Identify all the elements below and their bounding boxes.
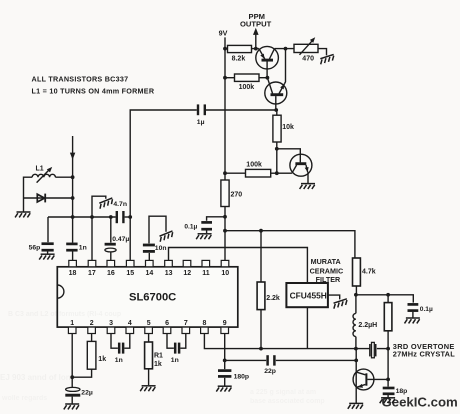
label 10k: [282, 124, 294, 131]
label 1k (pin 2): [98, 356, 106, 363]
svg-text:470: 470: [302, 56, 314, 63]
svg-text:7: 7: [184, 320, 188, 327]
svg-text:9V: 9V: [219, 29, 228, 38]
node: coil/crystal junction: [354, 347, 358, 351]
svg-text:B C3 and L2 of formuts (RI-4 c: B C3 and L2 of formuts (RI-4 coup: [8, 311, 121, 318]
capacitor 1u: [198, 104, 205, 115]
node: pin17/rail junction: [90, 215, 94, 219]
svg-text:6: 6: [165, 320, 169, 327]
svg-text:R1: R1: [154, 353, 163, 360]
node: 100k/Q1-base junction: [266, 76, 270, 80]
label 4.7k: [362, 268, 376, 275]
svg-text:27MHz CRYSTAL: 27MHz CRYSTAL: [393, 349, 455, 358]
label 56p: [29, 244, 41, 251]
ground (under 56p): [39, 254, 54, 259]
label SL6700C: [129, 291, 176, 303]
capacitor 1n (pins 6-7): [167, 334, 186, 354]
node: rail/right-rail junction: [223, 229, 227, 233]
node: rail/100k junction: [223, 76, 227, 80]
label 9V: [219, 29, 228, 38]
ground (under 0.1u osc): [405, 318, 420, 323]
pin numbers top row: [69, 270, 230, 277]
svg-text:14: 14: [146, 270, 154, 277]
node: 0.47u/rail junction: [109, 215, 113, 219]
svg-text:1k: 1k: [98, 356, 106, 363]
svg-text:CERAMIC: CERAMIC: [310, 266, 344, 275]
node: pin1/1k junction: [70, 375, 74, 379]
svg-text:16: 16: [107, 270, 115, 277]
label R1: [154, 353, 163, 360]
wire: left branch to ground: [23, 198, 25, 212]
label 0.1u (oscillator): [420, 306, 433, 313]
wire: 10k to Q3 collector and base row: [277, 142, 301, 173]
wire: pin 17 vertical: [91, 217, 93, 260]
svg-text:8.2k: 8.2k: [232, 55, 246, 62]
wire: antenna input vertical to pin 18: [72, 136, 74, 260]
node: rail/100k-2 junction: [223, 171, 227, 175]
label 1n (pins 6-7): [171, 357, 179, 364]
PPM output arrowhead: [253, 28, 259, 35]
wire: 9V rail down to 270: [224, 37, 226, 180]
label 470: [302, 56, 314, 63]
resistor 8.2k: [228, 45, 252, 52]
node: 4.7k/osc junction: [354, 293, 358, 297]
resistor 270: [221, 180, 229, 207]
node: 10k/Q3 top junction: [275, 147, 279, 151]
capacitor 1n (pins 3-4): [111, 334, 130, 354]
svg-text:22p: 22p: [264, 368, 276, 375]
note text: ALL TRANSISTORS BC337: [32, 74, 129, 83]
label 4.7n: [113, 201, 127, 208]
wire: Q2 base node to 10k: [276, 110, 278, 115]
ground (under 22u): [64, 404, 79, 409]
capacitor 4.7n (in rail): [117, 211, 124, 223]
node: 100k-2/Q3 junction: [275, 171, 279, 175]
node: collector/470 junction: [284, 47, 288, 51]
svg-text:FILTER: FILTER: [316, 275, 341, 284]
svg-text:CFU455H: CFU455H: [290, 290, 327, 300]
node: pin9/22p junction: [223, 359, 227, 363]
ground (under diode left): [15, 212, 30, 217]
node: rail/main junction: [71, 215, 75, 219]
label 1u: [197, 119, 205, 126]
svg-text:5: 5: [147, 320, 151, 327]
ground (10n loop, slanted): [158, 231, 174, 242]
wire: PPM output stub: [255, 35, 257, 49]
label CFU455H: [290, 290, 327, 300]
ground (Q4 emitter): [348, 403, 363, 408]
svg-text:wolle regards: wolle regards: [1, 395, 47, 402]
svg-text:1n: 1n: [115, 357, 123, 364]
svg-text:ALL TRANSISTORS BC337: ALL TRANSISTORS BC337: [32, 74, 129, 83]
resistor 2.2k: [257, 231, 265, 349]
wire: rail row y=217 to 4.7n: [48, 216, 116, 218]
label 22p: [264, 368, 276, 375]
wire: pin 1 down to 22u: [71, 334, 73, 388]
node: base/18p junction: [386, 378, 390, 382]
resistor 100k (upper): [235, 74, 260, 81]
ground (under 0.1u): [196, 234, 211, 239]
transistor Q1: [256, 46, 279, 77]
node: crystal/base junction: [386, 347, 390, 351]
wire: 8.2k leads: [225, 48, 259, 50]
crystal X1: [370, 342, 376, 357]
capacitor 0.47u (polarized): [105, 244, 117, 252]
node: pin15/rail junction: [128, 215, 132, 219]
wire: 100k-2 leads: [225, 172, 277, 174]
note text: L1 = 10 TURNS ON 4mm FORMER: [32, 87, 155, 96]
capacitor 18p: [383, 388, 395, 397]
ground (under 180p): [216, 386, 231, 391]
svg-text:11: 11: [202, 270, 210, 277]
label 3RD OVERTONE: [393, 342, 455, 351]
node: Q2 base/1u line junction: [274, 108, 278, 112]
wire: pin 8 to oscillator rail: [204, 334, 369, 349]
pin numbers bottom row: [70, 320, 227, 327]
label PPM: [249, 12, 265, 21]
label OUTPUT: [240, 20, 272, 29]
label 270: [231, 191, 243, 198]
capacitor 0.1u (decoupling): [201, 222, 212, 229]
svg-text:270: 270: [231, 191, 243, 198]
label 8.2k: [232, 55, 246, 62]
wire: Q3 emitter lead into circle: [277, 172, 292, 174]
label CERAMIC: [310, 266, 344, 275]
label 1k (R1): [154, 361, 162, 368]
capacitor 56p: [42, 244, 54, 251]
capacitor 180p: [218, 360, 231, 385]
svg-text:MURATA: MURATA: [311, 257, 341, 266]
svg-text:9: 9: [223, 320, 227, 327]
wire: crystal right lead: [377, 348, 388, 350]
capacitor 22p: [268, 355, 275, 365]
wire: 0.47u branch from rail to pin 16: [110, 217, 112, 260]
wire: filter right lead to ground: [328, 295, 340, 299]
svg-text:EJ 903 annd of long: EJ 903 annd of long: [0, 373, 76, 382]
svg-text:17: 17: [88, 270, 96, 277]
label 22u: [81, 390, 93, 397]
resistor (oscillator base, unlabeled): [384, 295, 392, 387]
svg-text:3: 3: [109, 320, 113, 327]
potentiometer 470: [294, 37, 318, 55]
svg-text:2.2µH: 2.2µH: [358, 322, 377, 329]
svg-text:base associated comp: base associated comp: [250, 398, 325, 405]
ground (filter, slanted): [332, 299, 348, 309]
label L1: [36, 166, 44, 173]
label 180p: [234, 374, 250, 381]
svg-text:22µ: 22µ: [81, 390, 93, 397]
svg-text:2.2k: 2.2k: [266, 295, 280, 302]
label 0.1u: [184, 224, 197, 231]
wire: 10n branch pin 14 with ground loop: [149, 216, 166, 260]
label 2.2k: [266, 295, 280, 302]
ground (under 18p): [380, 398, 395, 403]
svg-text:4: 4: [128, 320, 132, 327]
resistor 100k (lower): [246, 169, 271, 177]
capacitor C 1n (pin 18): [66, 244, 77, 250]
svg-text:2: 2: [90, 320, 94, 327]
svg-text:4.7n: 4.7n: [113, 201, 127, 208]
resistor 1k (pin 2): [72, 334, 96, 378]
label 0.47u: [112, 236, 129, 243]
svg-text:4.7k: 4.7k: [362, 268, 376, 275]
svg-text:1n: 1n: [79, 244, 87, 251]
wire: 0.1u stub: [207, 217, 225, 221]
svg-text:L1 = 10 TURNS ON 4mm FORMER: L1 = 10 TURNS ON 4mm FORMER: [32, 87, 155, 96]
svg-text:1k: 1k: [154, 361, 162, 368]
wire: right rail y=230.7 to 4.7k: [225, 231, 355, 258]
node: top rail/R junction: [386, 293, 390, 297]
label 10n: [155, 245, 167, 252]
IC top pin boxes 18-10: [69, 260, 229, 266]
svg-text:13: 13: [165, 270, 173, 277]
svg-text:1n: 1n: [171, 357, 179, 364]
node: PPM/emitter junction: [254, 47, 258, 51]
node: diode/main junction: [71, 196, 75, 200]
wire: Q1 collector to 470 node: [275, 48, 295, 50]
svg-text:10n: 10n: [155, 245, 167, 252]
label 100k (lower): [246, 162, 262, 169]
wire: osc top rail: [356, 295, 413, 303]
ground (pin 17 stub, slanted): [98, 198, 114, 209]
svg-text:1µ: 1µ: [197, 119, 205, 126]
svg-text:SL6700C: SL6700C: [129, 291, 176, 303]
label 1n (pins 3-4): [115, 357, 123, 364]
label 27MHz CRYSTAL: [393, 349, 455, 358]
svg-text:L1: L1: [36, 166, 44, 173]
svg-text:1: 1: [70, 320, 74, 327]
transistor Q2: [265, 78, 287, 110]
wire: pin 15 vertical and top loop to 1u cap: [130, 110, 197, 260]
transistor Q4 (oscillator): [353, 349, 388, 403]
watermark GeekIC.com: [382, 394, 458, 409]
wire: 470 node down to Q2 collector: [284, 49, 287, 84]
ceramic filter CFU455H: [286, 283, 328, 307]
wire: L1 left lead and left branch down: [24, 177, 33, 198]
node: rail/0.1u junction: [223, 215, 227, 219]
svg-text:10: 10: [221, 270, 229, 277]
svg-text:100k: 100k: [246, 162, 262, 169]
wire: 0.1u to ground: [206, 231, 208, 234]
node: 9V/8.2k junction: [223, 47, 227, 51]
resistor 4.7k: [353, 258, 361, 295]
node: right-rail/2.2k junction: [259, 229, 263, 233]
label 2.2uH: [358, 322, 377, 329]
label 18p: [396, 388, 408, 395]
wire: 470 to ground: [318, 49, 327, 56]
wire: 100k leads: [225, 77, 267, 79]
wire: 56p stub: [47, 217, 49, 242]
svg-text:18: 18: [69, 270, 77, 277]
svg-text:12: 12: [183, 270, 191, 277]
IC SL6700C body: [57, 267, 238, 327]
capacitor 22u (polarized): [65, 387, 80, 403]
wire: L1 right lead to main line: [55, 176, 72, 178]
inductor 2.2uH: [353, 295, 356, 349]
ground (under R1): [140, 386, 155, 391]
resistor R1 1k (pin 5): [145, 334, 153, 386]
capacitor 10n: [143, 245, 155, 251]
wire: filter bottom lead: [306, 307, 308, 348]
L1 variable arrow: [37, 167, 53, 183]
diode D1: [24, 194, 73, 203]
wire: pin 9 down to 22p row: [224, 334, 226, 361]
inductor L1: [32, 174, 55, 177]
IC bottom pin boxes 1-9: [68, 327, 228, 333]
faint page bleed-through artifacts: [0, 311, 325, 405]
svg-text:GeekIC.com: GeekIC.com: [382, 394, 458, 409]
wire: pin 17 ground stub: [92, 196, 106, 217]
label MURATA: [311, 257, 341, 266]
svg-text:180p: 180p: [234, 374, 250, 381]
capacitor 0.1u (oscillator): [408, 304, 419, 317]
svg-text:0.1µ: 0.1µ: [184, 224, 197, 231]
svg-text:0.47µ: 0.47µ: [112, 236, 129, 243]
ground (470, slanted): [319, 54, 335, 64]
wire: 1u cap to Q2 base node: [206, 109, 276, 111]
label 100k (upper): [239, 84, 255, 91]
wire: 22p row to oscillator: [225, 359, 357, 361]
ground (Q3 emitter): [300, 184, 315, 189]
label FILTER: [316, 275, 341, 284]
svg-text:a 225 g signal at am: a 225 g signal at am: [250, 389, 316, 396]
node: L1/main junction: [71, 175, 75, 179]
svg-text:0.1µ: 0.1µ: [420, 306, 433, 313]
svg-text:10k: 10k: [282, 124, 294, 131]
svg-text:OUTPUT: OUTPUT: [240, 20, 272, 29]
wire: 4.7n to pin 15 line: [125, 216, 131, 218]
svg-text:56p: 56p: [29, 244, 41, 251]
transistor Q3: [290, 154, 312, 183]
wire: 270 to pin 10: [224, 207, 226, 261]
svg-text:8: 8: [203, 320, 207, 327]
label 1n (pin 18): [79, 244, 87, 251]
wire: pin 13 to ceramic filter top: [169, 248, 308, 284]
svg-text:100k: 100k: [239, 84, 255, 91]
node: osc collector junction: [354, 359, 358, 363]
antenna input arrowhead: [70, 153, 75, 160]
svg-text:15: 15: [126, 270, 134, 277]
node: rail/2.2k bottom junction: [259, 347, 263, 351]
resistor 10k: [273, 115, 281, 142]
wire: 56p to ground: [47, 252, 49, 254]
